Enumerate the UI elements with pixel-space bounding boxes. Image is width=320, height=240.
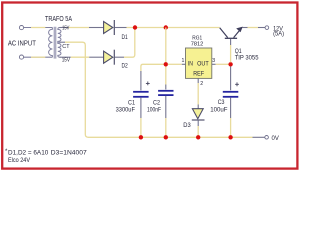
diode D2 [104, 50, 124, 65]
node junction OUT [228, 62, 232, 66]
svg-text:(5A): (5A) [273, 31, 284, 38]
svg-text:15V: 15V [62, 57, 71, 63]
svg-text:3: 3 [212, 58, 215, 64]
wire base riser [230, 39, 232, 62]
svg-text:1: 1 [182, 58, 185, 64]
svg-text:7812: 7812 [191, 42, 204, 48]
diode D1 [104, 20, 127, 35]
wire C1 branch [141, 64, 166, 90]
wire C3 branch [230, 66, 232, 90]
svg-text:15V: 15V [62, 25, 70, 31]
node junction D1/D2 [133, 25, 137, 29]
diode D3 [192, 109, 205, 138]
svg-text:Elco 24V: Elco 24V [8, 157, 31, 164]
svg-text:0V: 0V [272, 135, 280, 142]
capacitor C3 [223, 92, 239, 138]
svg-text:IN: IN [188, 60, 193, 67]
wire C2 branch [165, 64, 167, 89]
capacitor C2 [158, 91, 173, 138]
node junction rail C2 [164, 135, 168, 139]
svg-text:D1: D1 [122, 34, 129, 41]
svg-text:100nF: 100nF [147, 106, 161, 113]
svg-text:TRAFO 5A: TRAFO 5A [45, 15, 72, 23]
wire D2 cathode up to top rail [124, 28, 135, 58]
wire AC input top [24, 27, 53, 29]
plus mark C1 [146, 82, 150, 86]
node junction rail C3 [228, 135, 232, 139]
plus mark C3 [235, 82, 239, 86]
node junction rail C1 [139, 135, 143, 139]
svg-text:CT: CT [62, 44, 70, 50]
wire 15V top tap to D1 [60, 27, 104, 29]
svg-text:2: 2 [200, 81, 203, 87]
svg-text:3300uF: 3300uF [116, 106, 135, 113]
terminal 12V output [265, 26, 269, 30]
svg-text:D2: D2 [122, 63, 129, 70]
transformer core [54, 27, 56, 59]
svg-text:D3: D3 [183, 122, 191, 129]
svg-text:100uF: 100uF [210, 106, 227, 113]
wire REF pin down [197, 78, 199, 108]
wire riser to regulator IN [165, 28, 167, 63]
svg-text:D3=1N4007: D3=1N4007 [51, 150, 88, 156]
node junction top rail to IN [164, 25, 168, 29]
terminal AC input bottom [19, 55, 23, 59]
wire CT tap down to ground rail [60, 42, 265, 137]
transistor Q1 [220, 27, 243, 39]
wire emitter to output [243, 27, 266, 29]
terminal 0V output [265, 136, 269, 140]
svg-text:AC INPUT: AC INPUT [8, 39, 36, 48]
node junction IN [164, 62, 168, 66]
svg-text:TIP 3055: TIP 3055 [235, 54, 259, 61]
wire IN pin [168, 63, 186, 65]
terminal AC input top [19, 26, 23, 30]
svg-text:OUT: OUT [197, 60, 209, 67]
border frame [2, 3, 297, 169]
wire 15V bottom tap to D2 [60, 56, 104, 58]
wire top rail [127, 27, 220, 29]
svg-text:C3: C3 [218, 99, 225, 106]
wire AC input bottom [24, 56, 53, 58]
transformer T1 primary winding [49, 28, 53, 58]
transformer secondary winding [58, 28, 61, 58]
node junction rail D3 [196, 135, 200, 139]
wire OUT pin [212, 63, 229, 65]
capacitor C1 [133, 92, 149, 138]
svg-text:D1,D2 = 6A10: D1,D2 = 6A10 [8, 150, 49, 156]
regulator U1 box [186, 48, 212, 78]
svg-text:REF: REF [193, 70, 204, 77]
